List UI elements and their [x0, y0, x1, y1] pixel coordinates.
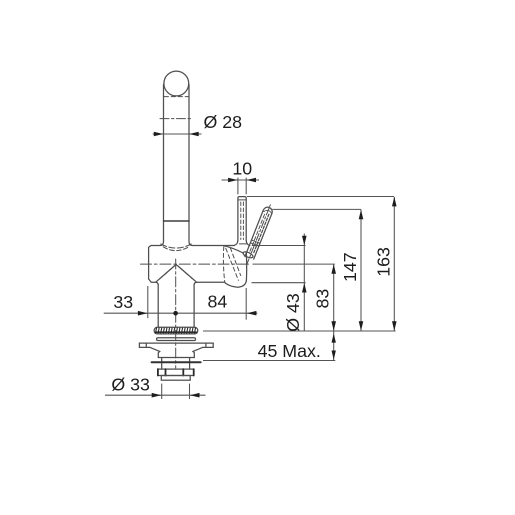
nut left edge bold — [157, 369, 159, 375]
dim line 163 vertical — [393, 197, 395, 331]
flange left slant — [150, 347, 160, 357]
washer ring — [157, 338, 196, 341]
dim line 83 vertical — [333, 264, 335, 331]
cone left inner dashed line — [160, 267, 174, 279]
dim line diameter 43 vertical — [303, 234, 305, 332]
cone corner tail right — [194, 282, 197, 284]
ext line shank right — [189, 384, 191, 399]
flange block bottom — [158, 357, 194, 359]
arrow d28 right — [189, 132, 199, 137]
handle lever joint line — [252, 240, 261, 243]
nut facet line left — [165, 369, 167, 375]
swivel saddle arc lower — [163, 247, 189, 251]
body bottom edge right segment — [197, 281, 225, 283]
arrow 147 top — [359, 210, 364, 220]
ext line 10 right — [245, 178, 247, 195]
arrow d33 right — [190, 393, 200, 398]
shank bottom stub — [161, 376, 190, 381]
svg-text:10: 10 — [232, 159, 252, 179]
svg-text:Ø 33: Ø 33 — [111, 375, 150, 395]
riser left side — [157, 285, 159, 328]
spout column right edge — [189, 85, 192, 246]
spout column left edge — [160, 85, 163, 246]
ext line body bottom — [252, 282, 306, 284]
arrow d28 left — [154, 132, 164, 137]
ext line body left end — [147, 286, 149, 318]
valve dome hidden joint arc — [223, 247, 224, 282]
dim line 33-84 — [104, 312, 258, 314]
svg-text:45 Max.: 45 Max. — [258, 341, 321, 361]
counter top line — [203, 330, 396, 332]
lever collar ellipse — [242, 251, 254, 259]
node dot on axis — [173, 311, 178, 316]
mounting nut — [158, 369, 194, 375]
body left end cap — [149, 246, 156, 283]
nut facet line right — [182, 369, 184, 375]
svg-text:Ø 43: Ø 43 — [283, 293, 303, 332]
handle lever joint line 2 — [250, 243, 259, 246]
arrow 163 bottom — [392, 321, 397, 331]
cone right inner dashed line — [178, 267, 192, 279]
knurl ring dark bottom — [156, 331, 197, 333]
valve dome hidden diagonal — [226, 248, 239, 280]
vertical center axis dash-dot — [175, 259, 177, 368]
ext line lever tip — [245, 288, 247, 320]
body top edge left — [151, 245, 160, 247]
spout column center mark dash-dot — [160, 118, 192, 120]
ext line body top — [253, 245, 306, 247]
arrow 10 left — [228, 178, 238, 183]
nut right edge bold — [193, 369, 195, 375]
dim line diameter 28 — [153, 133, 202, 135]
dim line 10 — [222, 179, 260, 181]
svg-text:84: 84 — [208, 292, 228, 312]
arrow 147 bottom — [359, 321, 364, 331]
arrow 84 — [247, 311, 257, 316]
ext line body center — [253, 263, 335, 265]
valve dome right edge — [245, 253, 247, 281]
hidden sphere seat line — [164, 96, 188, 98]
swivel saddle arc upper — [161, 244, 191, 248]
dim line 45max vertical — [333, 331, 335, 360]
cone corner tail left — [156, 282, 159, 284]
valve dome top edge — [224, 246, 243, 253]
svg-text:147: 147 — [340, 252, 360, 282]
sphere top cap of spout — [164, 71, 189, 96]
arrow 83 bottom — [331, 321, 336, 331]
arrow 163 top — [392, 197, 397, 207]
arrow 45max bottom — [332, 351, 336, 360]
dim line 147 vertical — [360, 210, 362, 331]
flange left tab — [139, 343, 150, 347]
handle lever axis dash-dot — [246, 205, 270, 266]
svg-text:Ø 28: Ø 28 — [204, 112, 243, 132]
dim line diameter 33 — [105, 394, 206, 396]
valve dome hidden diagonal 2 — [230, 248, 240, 276]
arrow 10 right — [247, 178, 257, 183]
handle lever dense dashed edge — [254, 214, 269, 253]
ext line rod top to 163 — [247, 196, 394, 198]
svg-text:83: 83 — [312, 289, 332, 309]
riser right side — [193, 285, 195, 328]
handle lever cap seam — [264, 210, 271, 213]
arrow d33 left — [152, 393, 162, 398]
ext line 10 left — [237, 178, 239, 195]
body top edge right of column — [192, 245, 234, 247]
control rod cap line — [238, 199, 246, 201]
arrow 33 — [138, 311, 148, 316]
spout joint line — [164, 220, 190, 222]
ext line lever top to 147 — [272, 208, 361, 210]
shank right — [189, 358, 191, 369]
control rod hidden bore left — [240, 202, 242, 240]
handle lever outline — [245, 207, 272, 259]
arrow d43 bottom — [302, 283, 307, 293]
flange right tab — [203, 343, 214, 347]
control rod left side — [238, 197, 246, 241]
control rod left skirt — [234, 241, 238, 246]
control rod plinth line — [239, 243, 247, 245]
gasket plate — [152, 361, 201, 363]
control rod right skirt — [246, 241, 250, 246]
control rod hidden bore right — [242, 202, 244, 240]
handle lever hidden bore dashed — [250, 213, 265, 251]
arrow d43 top — [302, 236, 307, 246]
svg-text:33: 33 — [113, 292, 133, 312]
knurled ring hatching — [156, 328, 196, 333]
horizontal body center axis dash-dot — [141, 263, 251, 265]
flange right slant — [193, 347, 203, 357]
shank left — [161, 358, 163, 369]
ext line shank left — [161, 384, 163, 399]
flange top bar — [139, 342, 213, 344]
svg-text:163: 163 — [374, 247, 394, 277]
arrow 45max top — [332, 334, 336, 343]
knurled ring outline — [154, 327, 198, 334]
arrow 83 top — [331, 264, 336, 274]
cone peak left arm — [156, 265, 197, 282]
counter bottom line — [203, 360, 335, 362]
valve dome chin — [225, 281, 246, 288]
